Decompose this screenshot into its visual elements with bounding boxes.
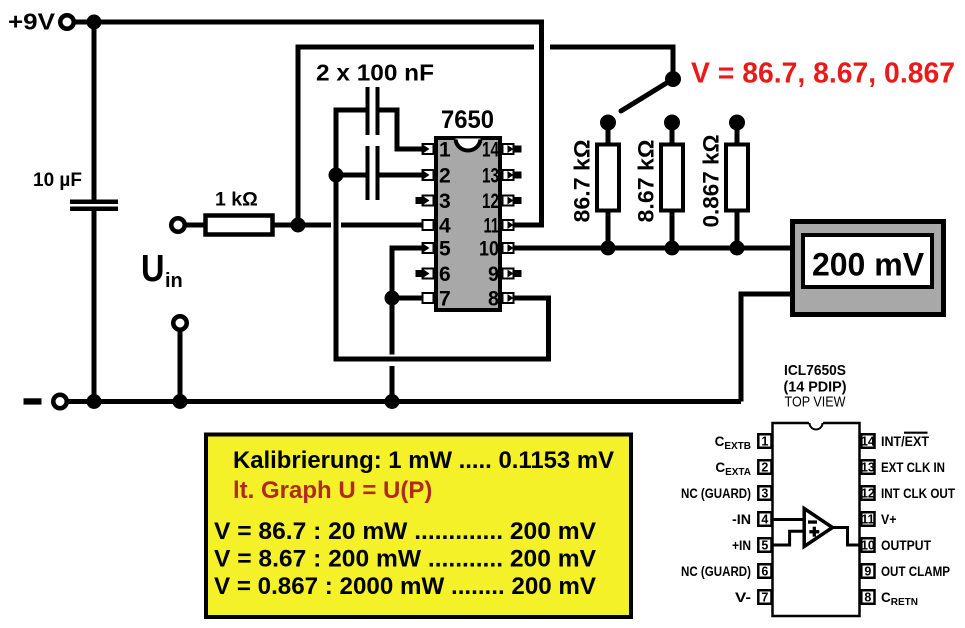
terminal Uin+ [171, 218, 185, 232]
pinout pin 11 [861, 512, 874, 526]
svg-text:OUTPUT: OUTPUT [881, 538, 932, 553]
op-amp plus input mark [809, 530, 819, 533]
svg-text:6: 6 [439, 263, 451, 286]
resistor 0.867 kΩ [735, 122, 740, 144]
svg-text:NC (GUARD): NC (GUARD) [681, 564, 751, 579]
pinout wire +IN [773, 531, 807, 545]
svg-text:2: 2 [439, 165, 451, 188]
pinout pin 5 [758, 538, 771, 552]
wire loop vertical at x=298 [296, 45, 301, 228]
svg-text:+IN: +IN [732, 538, 751, 553]
svg-text:12: 12 [861, 487, 875, 501]
junction R1 bottom [601, 241, 616, 256]
wire switch pole drop [671, 45, 676, 82]
svg-text:4: 4 [439, 215, 451, 238]
svg-text:+9V: +9V [8, 9, 56, 35]
svg-text:3: 3 [761, 487, 768, 501]
pinout pin 9 [861, 564, 874, 578]
pin 10 [503, 243, 514, 253]
pin 14 [503, 144, 522, 154]
pin 1 [423, 144, 434, 154]
switch contact node R1 [600, 115, 616, 131]
wire left supply rail lower [92, 211, 97, 402]
svg-text:11: 11 [484, 215, 500, 238]
wire pin 8 vertical [546, 296, 551, 362]
pin 3 [416, 196, 434, 206]
meter M1 body [793, 222, 944, 315]
switch S1 lever [621, 79, 673, 111]
pin 11 [503, 220, 514, 230]
pinout pin 3 [758, 486, 771, 500]
svg-text:11: 11 [861, 513, 874, 527]
svg-text:1: 1 [439, 139, 451, 162]
wire left supply rail upper [92, 22, 97, 201]
wire to pin 4 (segment a) [298, 223, 331, 228]
wire C2 left lead [334, 108, 366, 113]
svg-text:14: 14 [482, 139, 499, 162]
resistor R1 1 kOhm [206, 216, 273, 235]
pinout pin 13 [861, 460, 875, 474]
svg-text:7650: 7650 [441, 106, 494, 134]
op-amp minus input mark [808, 520, 817, 523]
junction ground pin7 net [385, 394, 400, 409]
wire pin 7 stub [392, 296, 424, 301]
svg-text:V = 86.7, 8.67, 0.867: V = 86.7, 8.67, 0.867 [691, 58, 955, 90]
svg-text:9: 9 [864, 565, 871, 579]
label minus [24, 398, 42, 404]
svg-text:86.7 kΩ: 86.7 kΩ [570, 140, 595, 223]
pin 7 [423, 293, 434, 303]
svg-text:EXT CLK IN: EXT CLK IN [881, 460, 945, 475]
svg-text:10 µF: 10 µF [33, 170, 82, 191]
pinout pin 1 [758, 434, 771, 448]
pinout pin 10 [861, 538, 875, 552]
svg-text:12: 12 [482, 190, 499, 213]
wire pin 8 stub [514, 296, 551, 301]
svg-text:8.67 kΩ: 8.67 kΩ [634, 140, 659, 223]
junction ground Uin [173, 394, 188, 409]
wire pin 5 stub [390, 246, 424, 251]
wire ground rail [68, 399, 741, 404]
junction C3 node [329, 168, 344, 183]
svg-text:14: 14 [861, 435, 875, 449]
svg-text:lt. Graph U = U(P): lt. Graph U = U(P) [233, 477, 432, 504]
IC U1 notch [456, 139, 481, 152]
svg-text:-IN: -IN [732, 512, 751, 527]
wire C2 right lead [380, 108, 400, 113]
pinout INT/EXT overline [904, 432, 928, 434]
svg-text:Kalibrierung: 1 mW ..... 0.115: Kalibrierung: 1 mW ..... 0.1153 mV [233, 447, 614, 474]
op-amp IC U1 7650 body [436, 138, 500, 310]
svg-text:13: 13 [482, 165, 499, 188]
terminal Uin- [173, 316, 187, 330]
wire 1k right lead [274, 223, 298, 228]
capacitor C1 10uF plates [70, 200, 118, 205]
wire clock loop top (right segment) [550, 45, 673, 50]
pinout pin 14 [861, 434, 875, 448]
svg-text:2 x 100 nF: 2 x 100 nF [316, 60, 434, 86]
wire output bus pin10 to meter [514, 246, 792, 251]
pin 6 [416, 269, 434, 279]
wire pin7 net vertical lower [390, 366, 395, 402]
wire meter low side vertical [739, 292, 744, 402]
wire Uin- to ground rail [178, 331, 183, 402]
info box [206, 435, 631, 618]
svg-text:NC (GUARD): NC (GUARD) [681, 486, 751, 501]
wire C3 left lead [336, 173, 366, 178]
pinout pin 2 [758, 460, 771, 474]
svg-text:9: 9 [488, 263, 499, 286]
capacitor C3 100nF plates [366, 146, 370, 200]
switch contact node R2 [664, 115, 680, 131]
junction ground left [87, 394, 102, 409]
svg-text:in: in [165, 270, 183, 292]
pinout IC body [773, 423, 860, 616]
svg-text:V+: V+ [881, 512, 897, 527]
svg-text:10: 10 [479, 238, 499, 261]
wire feedback bottom horizontal [334, 357, 552, 362]
pin 4 [423, 220, 434, 230]
svg-text:8: 8 [864, 591, 871, 605]
terminal +9V [60, 15, 74, 29]
junction top-left node [87, 15, 102, 30]
pin 8 [503, 293, 514, 303]
wire capacitor net vertical [334, 108, 339, 362]
junction node IN [291, 218, 306, 233]
wire 1k left lead [186, 223, 206, 228]
pin 5 [423, 243, 434, 253]
svg-text:V = 86.7 : 20 mW ............: V = 86.7 : 20 mW ............. 200 mV [214, 518, 596, 545]
meter M1 display [803, 235, 932, 287]
pinout notch [809, 422, 823, 425]
svg-text:0.867 kΩ: 0.867 kΩ [699, 135, 724, 228]
svg-text:V-: V- [735, 590, 751, 605]
svg-text:OUT CLAMP: OUT CLAMP [881, 564, 950, 579]
pin 2 [423, 170, 434, 180]
pinout wire -IN [773, 518, 807, 521]
junction R3 bottom [730, 241, 745, 256]
svg-text:3: 3 [439, 190, 451, 213]
svg-text:V = 0.867 : 2000 mW ........ 2: V = 0.867 : 2000 mW ........ 200 mV [214, 573, 596, 600]
pin 9 [503, 269, 522, 279]
svg-text:INT/EXT: INT/EXT [881, 434, 930, 449]
wire C2 to pin 1 vertical [395, 108, 400, 152]
svg-text:2: 2 [761, 461, 768, 475]
switch contact node R3 [729, 115, 745, 131]
junction R2 bottom [665, 241, 680, 256]
switch S1 pole [665, 71, 681, 87]
svg-text:6: 6 [761, 565, 768, 579]
svg-text:13: 13 [861, 461, 875, 475]
svg-text:V = 8.67 : 200 mW ...........: V = 8.67 : 200 mW ........... 200 mV [214, 546, 596, 573]
wire to pin 4 (segment b) [341, 223, 423, 228]
wire V+ vertical to pin 11 [539, 20, 544, 228]
svg-text:1: 1 [761, 435, 768, 449]
resistor 86.7 kΩ [606, 122, 611, 144]
svg-text:U: U [141, 248, 165, 290]
junction pin 7 node [385, 291, 400, 306]
capacitor C2 100nF plates [366, 87, 370, 135]
resistor 8.67 kΩ [670, 122, 675, 144]
pinout pin 8 [861, 590, 874, 604]
pinout pin 12 [861, 486, 875, 500]
svg-text:7: 7 [761, 591, 768, 605]
pinout pin 7 [758, 590, 771, 604]
wire meter low side horizontal [739, 292, 792, 297]
svg-text:1 kΩ: 1 kΩ [215, 189, 258, 211]
svg-text:5: 5 [439, 238, 451, 261]
svg-text:8: 8 [488, 288, 499, 311]
svg-text:200 mV: 200 mV [812, 247, 925, 283]
pinout pin 4 [758, 512, 771, 526]
svg-text:4: 4 [761, 513, 768, 527]
op-amp A1 [804, 509, 832, 547]
terminal minus [53, 395, 67, 409]
pinout pin 6 [758, 564, 771, 578]
pin 12 [503, 196, 522, 206]
svg-text:7: 7 [439, 288, 451, 311]
wire clock loop top (left segment) [296, 45, 535, 50]
wire pin 1 stub [395, 147, 424, 152]
svg-text:ICL7650S: ICL7650S [784, 362, 846, 379]
pinout wire OUTPUT [830, 528, 862, 546]
wire pin 11 stub [514, 223, 544, 228]
pin 13 [503, 170, 522, 180]
wire C3 right lead to pin 2 [380, 173, 424, 178]
wire +9V top rail [72, 20, 544, 25]
svg-text:10: 10 [861, 539, 875, 553]
svg-text:INT CLK OUT: INT CLK OUT [881, 486, 956, 501]
svg-text:5: 5 [761, 539, 768, 553]
wire pin5-pin7 vertical upper [390, 246, 395, 355]
svg-text:TOP VIEW: TOP VIEW [785, 394, 847, 411]
